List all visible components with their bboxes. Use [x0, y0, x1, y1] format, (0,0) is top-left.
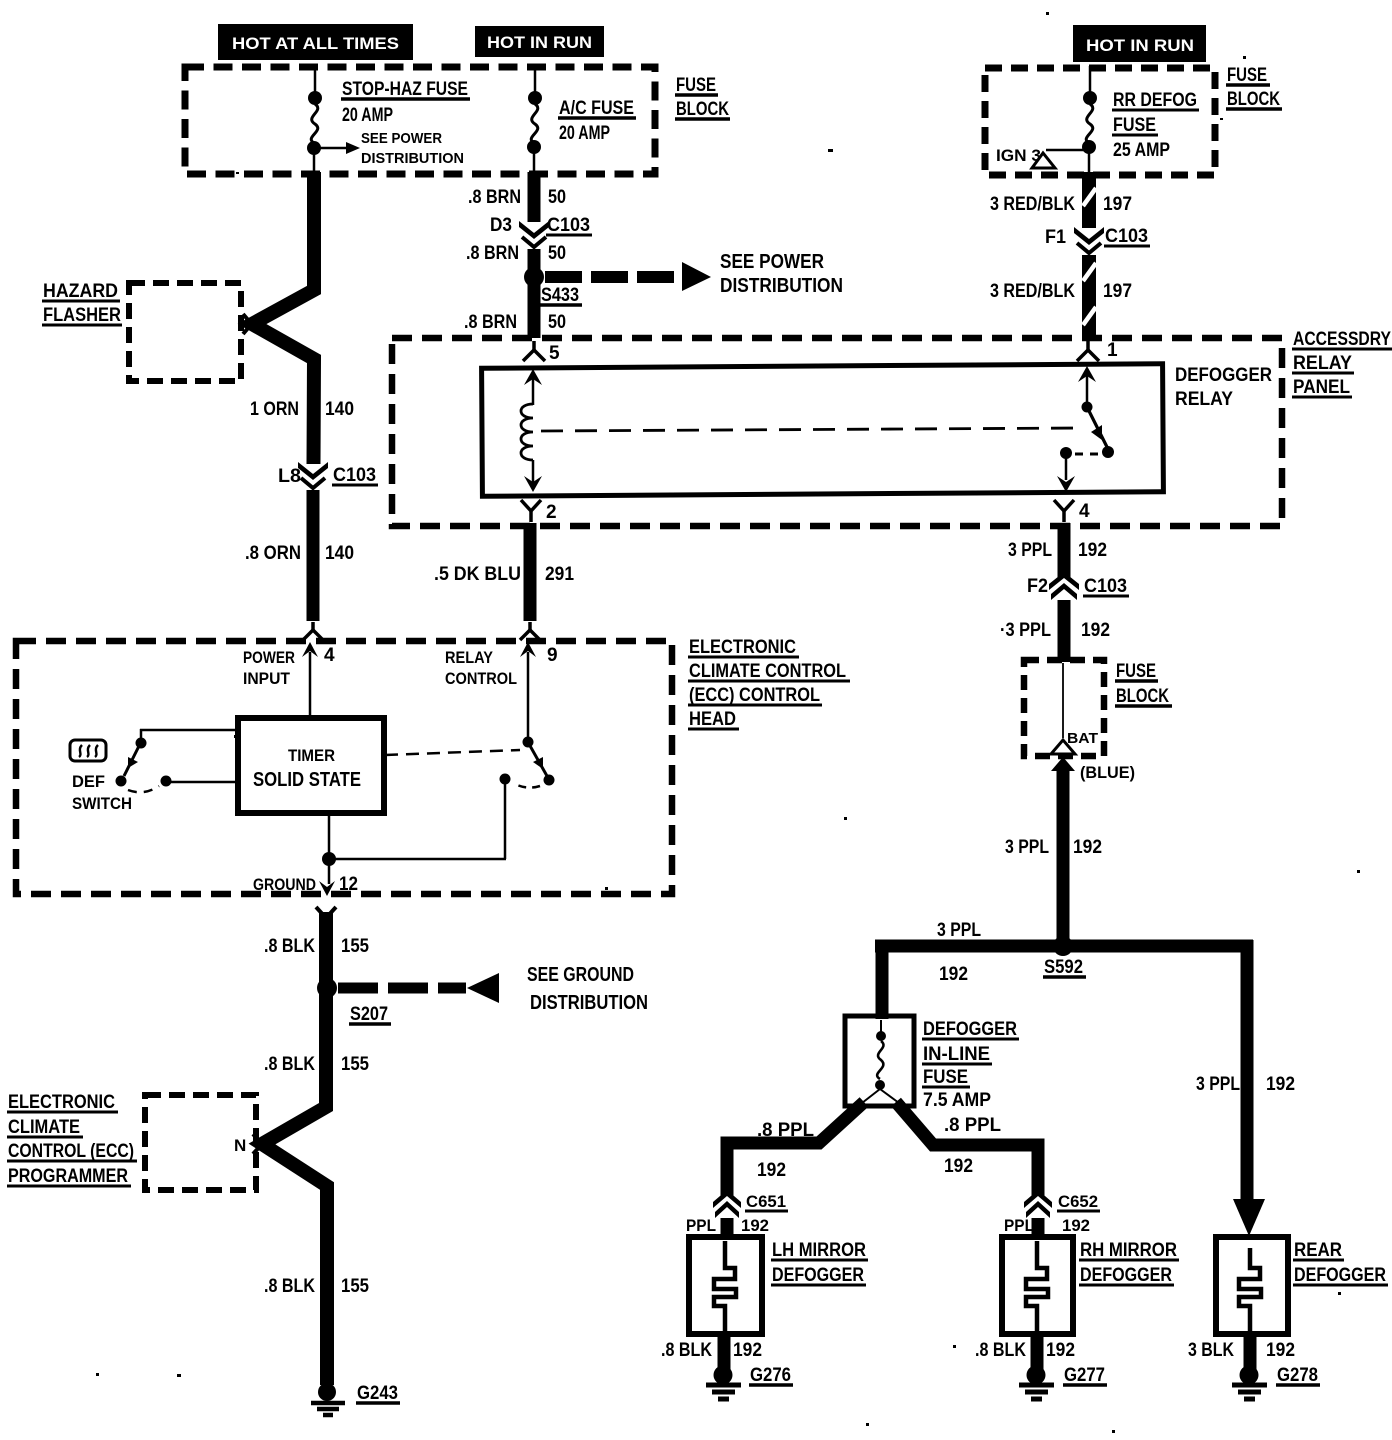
svg-text:12: 12 — [339, 874, 358, 895]
svg-text:PROGRAMMER: PROGRAMMER — [8, 1166, 128, 1187]
svg-text:.8 BRN: .8 BRN — [464, 312, 517, 333]
svg-text:S592: S592 — [1044, 957, 1083, 978]
wire .8 ORN 140 (L8 to ECC pin 4) — [307, 490, 320, 621]
svg-text:155: 155 — [341, 1276, 369, 1297]
svg-text:.8 BRN: .8 BRN — [466, 243, 519, 264]
svg-text:C103: C103 — [333, 465, 376, 486]
label .8 BLK 192 (LH) — [661, 1340, 762, 1361]
fuse RR DEFOG 25A symbol — [1082, 91, 1097, 172]
pin BAT line — [1062, 663, 1064, 738]
label PPL 192 (C652) — [1004, 1216, 1090, 1235]
svg-text:·3 PPL: ·3 PPL — [1000, 620, 1051, 641]
svg-text:.8 BLK: .8 BLK — [975, 1340, 1026, 1361]
svg-text:9: 9 — [547, 645, 558, 666]
svg-text:192: 192 — [1081, 620, 1110, 641]
wire from HOT IN RUN into RR DEFOG fuse — [1089, 66, 1092, 95]
pin N fork (programmer) — [253, 1134, 271, 1154]
pin 5 fork (relay) — [523, 341, 545, 361]
svg-text:RR DEFOG: RR DEFOG — [1113, 90, 1197, 111]
svg-text:G278: G278 — [1277, 1365, 1318, 1386]
svg-text:.8 BRN: .8 BRN — [468, 187, 521, 208]
label .8 ORN 140 — [245, 543, 354, 564]
fuse block (right) dashed box — [985, 68, 1215, 175]
svg-text:FUSE: FUSE — [1113, 115, 1156, 136]
ground G277 — [1019, 1366, 1054, 1400]
svg-text:PANEL: PANEL — [1293, 377, 1350, 398]
svg-text:PPL: PPL — [1004, 1216, 1034, 1235]
svg-text:3 PPL: 3 PPL — [1005, 837, 1049, 858]
label DEFOGGER RELAY — [1175, 365, 1272, 410]
svg-text:FLASHER: FLASHER — [43, 305, 121, 326]
label FUSE BLOCK (mid right) — [1115, 661, 1172, 707]
svg-text:ACCESSDRY: ACCESSDRY — [1293, 329, 1391, 350]
svg-text:SEE POWER: SEE POWER — [361, 130, 442, 147]
svg-text:192: 192 — [944, 1156, 973, 1177]
svg-text:A/C FUSE: A/C FUSE — [559, 98, 634, 119]
accessory relay panel dashed box — [392, 338, 1282, 526]
relay switch lower contact — [1057, 447, 1075, 492]
wire .8 BLK 155 (pin 12 to S207) — [319, 912, 333, 989]
svg-text:DISTRIBUTION: DISTRIBUTION — [361, 150, 464, 167]
label ELECTRONIC CLIMATE CONTROL (ECC) CONTROL HEAD — [688, 637, 850, 730]
arrow see ground distribution (S207) — [338, 964, 648, 1014]
fuse block (BAT) dashed box — [1024, 660, 1104, 756]
svg-text:192: 192 — [1266, 1340, 1295, 1361]
svg-text:.8 BLK: .8 BLK — [264, 1276, 315, 1297]
svg-text:S207: S207 — [350, 1004, 388, 1025]
label RR DEFOG FUSE 25 AMP — [1112, 90, 1199, 161]
svg-text:.8 ORN: .8 ORN — [245, 543, 301, 564]
svg-text:7.5 AMP: 7.5 AMP — [923, 1090, 991, 1111]
svg-text:CONTROL: CONTROL — [445, 669, 517, 688]
svg-text:RELAY: RELAY — [445, 648, 494, 667]
header HOT IN RUN (right) — [1073, 25, 1206, 62]
svg-text:F1: F1 — [1045, 227, 1066, 248]
relay coil arrow (bottom) — [524, 460, 542, 492]
svg-text:REAR: REAR — [1294, 1240, 1342, 1261]
header HOT AT ALL TIMES — [218, 24, 413, 60]
splice S433 — [524, 267, 544, 287]
svg-text:25 AMP: 25 AMP — [1113, 140, 1170, 161]
svg-text:DISTRIBUTION: DISTRIBUTION — [720, 275, 843, 297]
wire from HOT AT ALL TIMES into fuse — [314, 69, 317, 95]
dashed link timer to relay-control switch — [385, 750, 520, 755]
wire 3 PPL 192 (BAT to S592) with arrow up — [1051, 757, 1075, 946]
pin 9 fork (ECC relay control) — [520, 622, 540, 640]
label 3 PPL 192 — [1008, 540, 1107, 561]
label A/C FUSE 20 AMP — [558, 98, 636, 144]
svg-text:STOP-HAZ FUSE: STOP-HAZ FUSE — [342, 79, 468, 100]
label G276 — [749, 1365, 793, 1386]
svg-text:LH MIRROR: LH MIRROR — [772, 1240, 866, 1261]
label ACCESSDRY RELAY PANEL — [1292, 329, 1392, 398]
label HAZARD FLASHER — [42, 281, 122, 326]
label ELECTRONIC CLIMATE CONTROL (ECC) PROGRAMMER — [7, 1092, 137, 1187]
wire 3 RED/BLK 197 (fuse to F1) — [1083, 172, 1096, 228]
svg-text:140: 140 — [325, 399, 354, 420]
wire 3 PPL 192 (S592 horizontal) — [875, 940, 1253, 953]
svg-text:CLIMATE CONTROL: CLIMATE CONTROL — [689, 661, 846, 682]
ground G276 — [706, 1366, 741, 1400]
svg-text:SWITCH: SWITCH — [72, 794, 132, 813]
svg-text:FUSE: FUSE — [676, 75, 716, 96]
label RELAY CONTROL — [445, 648, 517, 688]
wire .5 DK BLU 291 (relay pin 2 to ECC pin 9) — [524, 523, 537, 621]
svg-text:.8 BLK: .8 BLK — [661, 1340, 712, 1361]
svg-text:FUSE: FUSE — [1116, 661, 1156, 682]
svg-text:197: 197 — [1103, 194, 1132, 215]
connector L8 C103 — [298, 462, 328, 488]
wire 3 PPL 192 (F2 to fuse block) — [1058, 600, 1071, 662]
def switch icon — [70, 740, 106, 761]
label 3 RED/BLK 197 — [990, 194, 1132, 215]
in-line fuse symbol — [862, 1020, 899, 1103]
label C652 — [1057, 1192, 1100, 1211]
svg-text:C652: C652 — [1058, 1192, 1098, 1211]
wire (C652 to RH mirror) — [1032, 1218, 1045, 1240]
svg-text:N: N — [234, 1136, 246, 1155]
RH mirror defogger box — [1002, 1237, 1073, 1334]
svg-text:192: 192 — [1266, 1074, 1295, 1095]
relay internal dashed link — [541, 428, 1084, 431]
svg-text:3 RED/BLK: 3 RED/BLK — [990, 194, 1075, 215]
svg-text:FUSE: FUSE — [923, 1067, 968, 1088]
fuse A/C 20A symbol — [527, 91, 542, 172]
svg-text:CLIMATE: CLIMATE — [8, 1117, 80, 1138]
pin 12 fork (below ECC) — [316, 907, 336, 918]
svg-text:HAZARD: HAZARD — [43, 281, 118, 302]
svg-text:BLOCK: BLOCK — [1116, 686, 1169, 707]
svg-text:G243: G243 — [357, 1383, 398, 1404]
label .8 BLK 155 — [264, 936, 369, 957]
pin 4 fork (ECC power input) — [303, 622, 323, 640]
svg-text:HOT IN RUN: HOT IN RUN — [487, 33, 592, 52]
svg-text:BLOCK: BLOCK — [676, 99, 729, 120]
svg-text:DEFOGGER: DEFOGGER — [1080, 1265, 1172, 1286]
svg-text:GROUND: GROUND — [253, 875, 316, 894]
label DEFOGGER IN-LINE FUSE 7.5 AMP — [922, 1019, 1019, 1111]
svg-text:SEE GROUND: SEE GROUND — [527, 964, 634, 986]
RH heating element — [1026, 1241, 1048, 1331]
svg-text:ELECTRONIC: ELECTRONIC — [8, 1092, 115, 1113]
svg-text:C103: C103 — [1084, 576, 1127, 597]
wire .8 BLK 192 (RH to G277) — [1031, 1334, 1044, 1370]
label C103 (L8) — [332, 465, 378, 486]
svg-text:50: 50 — [548, 312, 566, 333]
label .8 PPL 192 (right) — [944, 1115, 1001, 1177]
label REAR DEFOGGER — [1293, 1240, 1388, 1286]
svg-text:ELECTRONIC: ELECTRONIC — [689, 637, 796, 658]
svg-text:FUSE: FUSE — [1227, 65, 1267, 86]
svg-text:BLOCK: BLOCK — [1227, 89, 1280, 110]
svg-text:4: 4 — [1079, 501, 1090, 522]
svg-text:140: 140 — [325, 543, 354, 564]
wire .8 BRN 50 (S433 to relay pin 5) — [528, 277, 541, 338]
svg-text:2: 2 — [546, 502, 557, 523]
svg-text:.8 PPL: .8 PPL — [944, 1115, 1001, 1136]
svg-text:RELAY: RELAY — [1293, 353, 1352, 374]
rear defogger box — [1216, 1237, 1288, 1334]
svg-text:F2: F2 — [1027, 576, 1048, 597]
svg-text:HEAD: HEAD — [689, 709, 736, 730]
wire .8 BRN 50 (A/C fuse to D3) — [528, 172, 541, 222]
wire 3 PPL 192 (S592 to rear defogger) — [1241, 940, 1254, 1208]
wire 3 BLK 192 (rear to G278) — [1244, 1334, 1257, 1370]
svg-text:L8: L8 — [278, 466, 301, 487]
svg-text:20 AMP: 20 AMP — [342, 105, 393, 126]
label C103 (F1) — [1104, 226, 1150, 247]
splice S592 — [1053, 936, 1073, 956]
connector F2 C103 — [1049, 572, 1079, 600]
svg-text:192: 192 — [1062, 1216, 1090, 1235]
svg-text:5: 5 — [549, 343, 560, 364]
splice S207 — [317, 978, 337, 998]
svg-text:1: 1 — [1107, 340, 1118, 361]
svg-text:C103: C103 — [547, 215, 590, 236]
arrow see power distribution (in fuse block) — [314, 130, 464, 167]
pin 1 fork (relay) — [1077, 341, 1099, 361]
svg-text:G276: G276 — [750, 1365, 791, 1386]
svg-text:197: 197 — [1103, 281, 1132, 302]
svg-text:G277: G277 — [1064, 1365, 1105, 1386]
svg-text:SOLID STATE: SOLID STATE — [253, 769, 361, 791]
svg-text:DEFOGGER: DEFOGGER — [923, 1019, 1017, 1040]
wire (S592 to in-line fuse) — [876, 940, 889, 1019]
svg-text:4: 4 — [324, 645, 335, 666]
svg-text:(ECC) CONTROL: (ECC) CONTROL — [689, 685, 820, 706]
label FUSE BLOCK (right) — [1226, 65, 1282, 110]
svg-text:DEF: DEF — [72, 772, 105, 791]
svg-text:155: 155 — [341, 936, 369, 957]
svg-text:INPUT: INPUT — [243, 669, 291, 688]
label .8 BLK 155 — [264, 1054, 369, 1075]
connector BAT triangle — [1051, 740, 1075, 754]
LH heating element — [714, 1241, 736, 1331]
svg-text:20 AMP: 20 AMP — [559, 123, 610, 144]
label .8 BRN 50 — [466, 243, 566, 264]
fuse block (left) dashed box — [185, 67, 655, 174]
arrow see power distribution (S433) — [545, 251, 843, 297]
label -3 PPL 192 — [1000, 620, 1110, 641]
label .8 BRN 50 — [464, 312, 566, 333]
svg-text:SEE POWER: SEE POWER — [720, 251, 824, 273]
wire 3 PPL 192 (relay pin 4 to F2) — [1058, 523, 1071, 578]
svg-text:S433: S433 — [541, 285, 579, 306]
connector F1 C103 — [1074, 227, 1104, 253]
svg-text:192: 192 — [733, 1340, 762, 1361]
relay switch contact link (dashed) — [1074, 453, 1098, 456]
svg-text:291: 291 — [545, 564, 574, 585]
label .5 DK BLU 291 — [434, 564, 574, 585]
label 1 ORN 140 — [250, 399, 354, 420]
svg-text:D3: D3 — [490, 215, 512, 236]
label S207 — [349, 1004, 391, 1025]
svg-text:3 PPL: 3 PPL — [937, 920, 981, 941]
label .8 BLK 155 — [264, 1276, 369, 1297]
header HOT IN RUN (left) — [475, 26, 604, 57]
label .8 BLK 192 (RH) — [975, 1340, 1075, 1361]
label S433 — [540, 285, 582, 306]
connector IGN 3 — [996, 146, 1087, 168]
ECC control head dashed box — [16, 641, 672, 894]
defogger relay box — [482, 364, 1164, 497]
svg-text:.8 BLK: .8 BLK — [264, 936, 315, 957]
LH mirror defogger box — [689, 1237, 762, 1334]
pin 4 fork (relay) — [1054, 500, 1074, 522]
ground G278 — [1232, 1366, 1267, 1400]
svg-text:.5 DK BLU: .5 DK BLU — [434, 564, 521, 585]
label FUSE BLOCK (left) — [675, 75, 730, 120]
label POWER INPUT — [243, 648, 295, 688]
wire (C651 to LH mirror) — [721, 1218, 734, 1240]
defogger in-line fuse box — [845, 1016, 914, 1106]
label PPL 192 (C651) — [686, 1216, 769, 1235]
label 3 PPL 192 (rear) — [1196, 1074, 1295, 1095]
svg-text:HOT IN RUN: HOT IN RUN — [1086, 36, 1194, 55]
svg-text:DEFOGGER: DEFOGGER — [772, 1265, 864, 1286]
svg-text:.8 PPL: .8 PPL — [757, 1120, 814, 1141]
svg-text:CONTROL (ECC): CONTROL (ECC) — [8, 1141, 134, 1162]
svg-text:RH MIRROR: RH MIRROR — [1080, 1240, 1177, 1261]
svg-text:BAT: BAT — [1067, 730, 1098, 747]
svg-text:DISTRIBUTION: DISTRIBUTION — [530, 992, 648, 1014]
label C103 (F2) — [1083, 576, 1129, 597]
connector D3 C103 — [519, 221, 549, 247]
label 3 RED/BLK 197 — [990, 281, 1132, 302]
label STOP-HAZ FUSE 20 AMP — [341, 79, 470, 126]
svg-text:POWER: POWER — [243, 648, 295, 667]
svg-text:C651: C651 — [746, 1192, 786, 1211]
svg-text:3 RED/BLK: 3 RED/BLK — [990, 281, 1075, 302]
svg-text:(BLUE): (BLUE) — [1080, 763, 1135, 782]
rear heating element — [1239, 1248, 1261, 1331]
ECC programmer dashed box — [145, 1095, 256, 1190]
svg-text:192: 192 — [741, 1216, 769, 1235]
svg-text:192: 192 — [757, 1160, 786, 1181]
label GROUND 12 — [253, 874, 358, 895]
wire .8 PPL 192 (fuse to C651) — [727, 1102, 864, 1196]
svg-text:50: 50 — [548, 187, 566, 208]
wire .8 BLK 155 (S207 to ECC programmer) — [262, 988, 327, 1385]
pin 2 fork (relay) — [521, 500, 541, 522]
svg-text:TIMER: TIMER — [288, 746, 335, 765]
hazard flasher pin fork — [243, 314, 260, 334]
ground G243 — [311, 1383, 345, 1415]
svg-text:DEFOGGER: DEFOGGER — [1175, 365, 1272, 386]
svg-text:.8 BLK: .8 BLK — [264, 1054, 315, 1075]
label .8 PPL 192 (left) — [757, 1120, 814, 1181]
label 3 BLK 192 (rear) — [1188, 1340, 1295, 1361]
pin 4 arrow inside ECC — [302, 642, 318, 718]
svg-text:IN-LINE: IN-LINE — [923, 1044, 990, 1065]
connector C652 — [1024, 1190, 1052, 1218]
hazard flasher dashed box — [129, 283, 241, 381]
svg-text:1 ORN: 1 ORN — [250, 399, 299, 420]
ECC internal switch (relay control) — [332, 737, 555, 860]
svg-text:HOT AT ALL TIMES: HOT AT ALL TIMES — [232, 34, 399, 53]
label G243 — [356, 1383, 400, 1404]
svg-text:3 PPL: 3 PPL — [1196, 1074, 1240, 1095]
label RH MIRROR DEFOGGER — [1079, 1240, 1179, 1286]
label LH MIRROR DEFOGGER — [771, 1240, 868, 1286]
wire .8 PPL 192 (fuse to C652) — [896, 1102, 1038, 1196]
svg-text:192: 192 — [1046, 1340, 1075, 1361]
label C103 (D3) — [546, 215, 592, 236]
svg-text:3 PPL: 3 PPL — [1008, 540, 1052, 561]
pin 9 arrow inside ECC — [520, 642, 536, 738]
arrow into rear defogger — [1233, 1199, 1265, 1236]
svg-text:C103: C103 — [1105, 226, 1148, 247]
label G278 — [1276, 1365, 1320, 1386]
relay coil — [521, 404, 533, 460]
wire from HOT IN RUN into A/C fuse — [534, 69, 537, 95]
label .8 BRN 50 — [468, 187, 566, 208]
relay switch arm — [1078, 366, 1114, 458]
label 3 PPL / 192 / S592 — [937, 920, 1086, 985]
label DEF SWITCH — [72, 772, 132, 813]
svg-text:192: 192 — [939, 964, 968, 985]
connector C651 — [713, 1190, 741, 1218]
label 3 PPL 192 — [1005, 837, 1102, 858]
label C651 — [745, 1192, 788, 1211]
svg-text:3 BLK: 3 BLK — [1188, 1340, 1234, 1361]
svg-text:192: 192 — [1078, 540, 1107, 561]
wire .8 BRN 50 (D3 to S433) — [528, 249, 541, 276]
label G277 — [1063, 1365, 1107, 1386]
timer solid state box — [238, 718, 384, 813]
fuse STOP-HAZ 20A symbol — [307, 91, 322, 172]
svg-text:PPL: PPL — [686, 1216, 716, 1235]
wire 3 RED/BLK 197 (F1 to relay pin 1) — [1083, 255, 1096, 338]
svg-text:IGN 3: IGN 3 — [996, 146, 1041, 165]
svg-text:50: 50 — [548, 243, 566, 264]
svg-text:192: 192 — [1073, 837, 1102, 858]
svg-text:155: 155 — [341, 1054, 369, 1075]
svg-text:DEFOGGER: DEFOGGER — [1294, 1265, 1386, 1286]
relay coil arrow (top) — [524, 369, 542, 405]
def switch wiring — [116, 729, 239, 792]
timer ground line and junction — [319, 813, 336, 896]
wire 1 ORN 140 (fuse block to hazard flasher to L8) — [252, 172, 314, 464]
svg-text:RELAY: RELAY — [1175, 389, 1233, 410]
wire .8 BLK 192 (LH to G276) — [718, 1334, 731, 1370]
